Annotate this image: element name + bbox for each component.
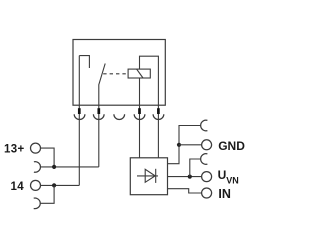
wire terminal1 riser [78,56,80,186]
relay coil K1 [128,69,150,78]
svg-text:14: 14 [11,181,25,193]
wire arc1 to terminal2 [41,166,99,168]
terminal socket arc 4 [134,114,145,119]
junction dot 14 [52,183,56,187]
bridge contact arc below 14 [34,198,41,209]
diode D1 lead [137,175,158,177]
wire junction to bridge arc 2 [40,185,54,203]
svg-text:U: U [218,168,227,182]
svg-text:IN: IN [218,187,231,201]
unused plug contact arc GND [201,120,208,131]
terminal socket arc 3 (empty) [114,114,125,119]
wire 14 to terminal1 [41,184,80,186]
wire 13+ to junction [41,148,55,167]
junction dot UVN [188,175,192,179]
diode D1 cathode bar [155,169,157,183]
wire terminal5 drop to diode box [157,105,159,158]
wire to GND circle [179,144,202,146]
terminal pin 5 [157,108,160,114]
wire terminal2 riser [98,105,100,166]
relay module outline [73,40,165,106]
switch blade [99,64,105,106]
bridge contact arc below 13+ [34,162,41,173]
terminal socket arc 2 [93,114,104,119]
svg-text:VN: VN [226,176,239,186]
plug terminal circle UVN [202,172,212,182]
terminal pin 2 [97,108,100,114]
unused plug contact arc UVN [201,154,208,165]
wire UVN group [168,176,202,178]
wire to unused arc UVN [190,159,201,177]
terminal pin 4 [138,108,141,114]
screw terminal circle 13+ [31,143,41,153]
junction dot GND [177,143,181,147]
coil diagonal [137,69,143,78]
screw terminal circle 14 [31,180,41,190]
terminal socket arc 1 [74,114,85,119]
junction dot 13+ [52,165,56,169]
svg-text:GND: GND [218,139,245,153]
diode D1 triangle [145,169,155,182]
input protection block [130,158,167,195]
wire GND group [168,126,201,164]
coil bottom wire to terminal4 [139,78,141,158]
terminal socket arc 5 [153,114,164,119]
plug terminal circle IN [202,188,212,198]
dashed actuation link [103,73,128,75]
terminal pin 1 [78,108,81,114]
fixed contact of relay switch [79,56,89,68]
svg-text:13+: 13+ [4,143,25,155]
plug terminal circle GND [202,140,212,150]
wire IN group [168,189,202,193]
coil top loop to terminal5 [140,56,159,105]
